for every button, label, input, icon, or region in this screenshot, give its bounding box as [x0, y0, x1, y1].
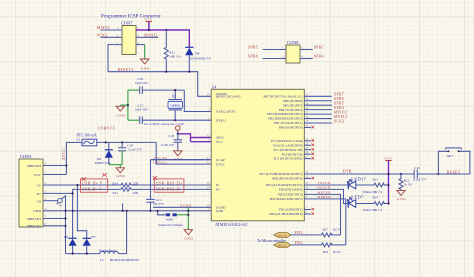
svg-text:R18: R18 [323, 250, 329, 254]
svg-text:1k 5%: 1k 5% [333, 250, 342, 254]
blanket box USB_RES nets [153, 176, 184, 192]
port M8TXD to microcontroller [274, 231, 322, 237]
ground under jumper [184, 230, 193, 241]
U4 XTAL1 XTAL2 UCAP UGND stubs [151, 159, 211, 161]
svg-text:SH: SH [59, 205, 63, 208]
svg-text:SCK2: SCK2 [97, 34, 108, 38]
svg-text:PD0 (OC.0B/AIN0/INT0): PD0 (OC.0B/AIN0/INT0) [269, 212, 302, 216]
wire shield pins tie [43, 210, 67, 227]
svg-text:CON3: CON3 [20, 154, 32, 159]
capacitor C10 [413, 166, 438, 182]
svg-text:D4: D4 [195, 52, 199, 56]
wire CON3 D+ / USB_D+ line [43, 189, 121, 193]
svg-text:SPB7: SPB7 [314, 46, 324, 50]
svg-text:L2: L2 [100, 258, 104, 262]
svg-text:PB3 (PDO/MISO/PCINT3): PB3 (PDO/MISO/PCINT3) [267, 112, 302, 116]
svg-text:16pF 50V: 16pF 50V [135, 81, 149, 85]
wire CON8 pin3 [248, 55, 286, 59]
svg-text:R13: R13 [373, 178, 379, 182]
ground at crystal caps [116, 106, 125, 118]
wire GND net from CON3 to U4 [43, 210, 211, 212]
port M8RXD to microcontroller [274, 241, 322, 247]
resistor R18 [322, 243, 346, 254]
wire USBVCC to UVCC [156, 142, 211, 164]
svg-text:UGND: UGND [180, 204, 192, 208]
svg-text:GND: GND [33, 209, 41, 213]
svg-text:U5V: U5V [145, 18, 153, 22]
svg-text:1k 5%: 1k 5% [404, 183, 413, 187]
reset button JuP1 loop [438, 148, 470, 174]
svg-text:PD5 (XCK/AIN4/PCINT12): PD5 (XCK/AIN4/PCINT12) [266, 183, 303, 187]
svg-text:GND: GND [397, 197, 406, 201]
svg-text:UBVCC: UBVCC [153, 161, 168, 165]
ferrite bead L2 [99, 210, 139, 262]
resistor R14 LED [356, 196, 389, 212]
power port +5V above CON7 [145, 18, 153, 30]
svg-text:R17: R17 [323, 227, 329, 231]
solder pad jumper SolP2 [157, 210, 184, 227]
svg-text:GND: GND [216, 209, 224, 213]
svg-text:TXLED: TXLED [318, 181, 331, 185]
svg-text:USB_RES_D+: USB_RES_D+ [156, 182, 183, 186]
svg-text:D-: D- [216, 183, 219, 187]
fuse F1 PTC 500mA [66, 134, 156, 146]
svg-text:SPB4: SPB4 [334, 106, 344, 110]
svg-text:RXLED: RXLED [318, 186, 331, 190]
svg-text:SMDN 5CA: SMDN 5CA [95, 161, 112, 165]
U4 PD stubs [304, 171, 314, 215]
svg-text:PD6 (RTS/AIN5/INT6): PD6 (RTS/AIN5/INT6) [272, 177, 302, 181]
junction [188, 71, 190, 73]
wire green jumper to ground [177, 207, 189, 229]
svg-text:VCC: VCC [34, 173, 42, 177]
svg-text:PB6 (PCINT6): PB6 (PCINT6) [283, 99, 302, 103]
capacitor C17 [128, 104, 211, 124]
svg-text:XTAL2 (PC0): XTAL2 (PC0) [216, 110, 235, 114]
svg-text:GND: GND [184, 236, 193, 240]
connector CON3 USB [19, 154, 47, 228]
svg-text:SHIELD1: SHIELD1 [27, 217, 41, 221]
junction [165, 29, 167, 31]
svg-text:USB_RES_D-: USB_RES_D- [156, 188, 182, 192]
svg-text:F1: F1 [77, 138, 81, 142]
svg-text:1uF 27V: 1uF 27V [153, 202, 165, 206]
svg-text:UVCC: UVCC [216, 162, 226, 166]
U4 left pin names [216, 95, 240, 214]
svg-text:PB5 (PCINT5): PB5 (PCINT5) [283, 103, 302, 107]
svg-text:D+: D+ [216, 188, 220, 192]
svg-text:PD2: PD2 [295, 241, 303, 245]
junction C21/C19 gnd stubs [122, 204, 152, 212]
svg-text:PD3: PD3 [295, 231, 303, 235]
svg-text:10K 1%: 10K 1% [169, 55, 180, 59]
U4 PC stubs NC [304, 138, 314, 160]
LED LED17 [347, 176, 366, 189]
wire ID to shield tie [43, 196, 66, 254]
svg-text:R14: R14 [373, 196, 379, 200]
wire RXLED from PD4 [304, 186, 348, 204]
svg-text:SHIELD4: SHIELD4 [27, 164, 41, 168]
svg-text:PC5 (PCINT9/OC.1B): PC5 (PCINT9/OC.1B) [273, 148, 302, 152]
svg-text:PD1 (AIN0/INT1): PD1 (AIN0/INT1) [279, 208, 303, 212]
svg-text:ID: ID [37, 199, 41, 203]
LED LED7 [347, 195, 364, 208]
svg-text:SPB6: SPB6 [248, 55, 258, 59]
U4 left pin numbers [207, 94, 210, 212]
junction [387, 202, 389, 204]
resistor R14 22R on D- [113, 181, 212, 186]
svg-text:M8RXD: M8RXD [318, 195, 332, 199]
svg-text:PD4 (INT5/AIN3): PD4 (INT5/AIN3) [279, 188, 303, 192]
capacitor C16 [128, 77, 184, 94]
svg-text:CON7: CON7 [121, 20, 133, 25]
svg-text:Solder Pad Jumper: Solder Pad Jumper [158, 223, 184, 227]
svg-text:16pF 50V: 16pF 50V [135, 108, 149, 112]
wire UGND [153, 204, 211, 208]
wire M8RXD from PD2 [304, 195, 346, 245]
net labels PB [334, 93, 347, 124]
junction [387, 184, 389, 186]
svg-text:PD3 (TXD1/INT3): PD3 (TXD1/INT3) [278, 193, 303, 197]
svg-text:GND: GND [116, 114, 125, 118]
svg-text:PD7 (CTS/HWB/AIN6/T0/INT7): PD7 (CTS/HWB/AIN6/T0/INT7) [259, 172, 302, 176]
svg-text:USB_D- V: USB_D- V [82, 188, 102, 192]
svg-text:D7: D7 [91, 235, 95, 239]
wire CON8 pin2 [300, 46, 324, 50]
svg-text:MOSI2: MOSI2 [334, 115, 347, 119]
resistor R12 pulldown [399, 173, 412, 190]
resistor R13 [356, 178, 389, 194]
svg-text:PB7 (PCINT7/OC.0A/OC.1C): PB7 (PCINT7/OC.0A/OC.1C) [263, 94, 302, 98]
svg-text:SPB4: SPB4 [314, 55, 324, 59]
wire CON7 pin1 MISO2 [97, 26, 139, 30]
svg-text:PC2 (PCINT11/AIN2): PC2 (PCINT11/AIN2) [274, 157, 303, 161]
crystal X2 16MHz [168, 90, 183, 120]
varistor D7 [76, 184, 96, 254]
ground under D5 [116, 168, 125, 178]
svg-text:Yellow 680 1%: Yellow 680 1% [363, 208, 383, 212]
wire CON7 pin4 MOSI2 [136, 34, 158, 38]
varistor D6 [64, 192, 77, 253]
svg-text:22R: 22R [133, 191, 139, 195]
svg-text:SPB5: SPB5 [334, 102, 344, 106]
svg-text:RESET (PC1/dW): RESET (PC1/dW) [216, 95, 240, 99]
svg-text:BLM21PG300SN1D: BLM21PG300SN1D [110, 258, 139, 262]
svg-text:R15: R15 [113, 191, 119, 195]
svg-text:M8TXD: M8TXD [277, 233, 287, 237]
svg-text:UCAP: UCAP [216, 158, 225, 162]
wire TXLED from PD5 [304, 181, 348, 185]
svg-text:SolP2: SolP2 [166, 217, 174, 221]
svg-text:16MHz: 16MHz [170, 104, 181, 108]
svg-text:MOSI2: MOSI2 [144, 34, 158, 38]
wire CON8 pin4 [300, 55, 324, 59]
svg-text:SCK2: SCK2 [334, 119, 345, 123]
diode D4 [185, 47, 211, 71]
connector CON7 [121, 20, 136, 54]
svg-text:PB1 (SCLK/PCINT1): PB1 (SCLK/PCINT1) [274, 121, 302, 125]
svg-text:PC4 (PCINT10): PC4 (PCINT10) [282, 152, 303, 156]
svg-text:USBVCC: USBVCC [98, 127, 116, 131]
svg-text:ATMEGA16U2-AU: ATMEGA16U2-AU [215, 222, 248, 227]
wire green ground tie D5/C19 [109, 151, 122, 168]
U4 right pin stubs PB [304, 96, 332, 128]
wire +5V rail CON7 pin2 [136, 30, 189, 47]
junction [174, 89, 176, 91]
capacitor C19 [118, 142, 143, 151]
resistor R17 [322, 227, 342, 236]
svg-text:DTR: DTR [343, 170, 352, 174]
ground under C18 [174, 151, 183, 161]
net XVCC vertical [62, 142, 66, 174]
junction [177, 133, 179, 135]
junction [105, 141, 107, 143]
wire CON3 SHIELD4 [43, 165, 66, 167]
svg-text:0.1uF 27V: 0.1uF 27V [129, 147, 143, 151]
svg-text:MISO2: MISO2 [97, 26, 111, 30]
svg-text:JuP1: JuP1 [446, 154, 453, 158]
wire M8TXD from PD3 [304, 191, 340, 235]
junction [65, 164, 67, 166]
svg-text:D+: D+ [36, 192, 41, 196]
svg-text:C18: C18 [169, 134, 175, 138]
svg-text:MISO2: MISO2 [334, 110, 347, 114]
svg-text:SPB7: SPB7 [334, 93, 344, 97]
svg-text:SHIELD2: SHIELD2 [27, 224, 41, 228]
svg-text:GND: GND [116, 174, 125, 178]
wire CON7 pin6 to GND [136, 45, 145, 59]
junction [148, 29, 150, 31]
svg-text:D6: D6 [64, 235, 68, 239]
capacitor C21 [146, 198, 164, 211]
svg-text:LED7: LED7 [351, 195, 364, 200]
junction [174, 119, 176, 121]
wire AVCC/VCC purple feed [178, 134, 211, 142]
svg-text:CD1414FB3-7-F: CD1414FB3-7-F [189, 57, 211, 61]
svg-text:0.1uF 27V: 0.1uF 27V [413, 177, 427, 181]
ground under R12 [397, 190, 406, 201]
svg-text:VCC: VCC [216, 140, 224, 144]
svg-text:PB0 (SS/PCINT0): PB0 (SS/PCINT0) [279, 126, 303, 130]
wire CON7 pin3 SCK2 [97, 34, 139, 38]
junction [387, 173, 389, 175]
svg-text:PD2 (RXD1/AIN1/INT2): PD2 (RXD1/AIN1/INT2) [270, 197, 303, 201]
wire ground tie of C16/C17 [120, 90, 129, 120]
wire CON3 VCC [43, 174, 66, 176]
wire shield bottom rail [66, 253, 101, 255]
diode D5 zener [95, 142, 113, 165]
wire CON8 pin1 [248, 46, 286, 50]
svg-text:To Microcontroller: To Microcontroller [257, 239, 287, 243]
svg-text:SPB5: SPB5 [248, 46, 258, 50]
svg-text:LED17: LED17 [351, 176, 366, 181]
resistor R15 22R on D+ [113, 188, 212, 195]
svg-text:1k 5%: 1k 5% [333, 227, 342, 231]
svg-text:PC6 (OC.1A/PCINT8): PC6 (OC.1A/PCINT8) [273, 143, 302, 147]
capacitor C18 [161, 134, 182, 151]
wire DTR from PD7 [304, 170, 414, 174]
svg-text:USB_D+ V: USB_D+ V [82, 182, 103, 186]
wire XTAL2 [184, 90, 211, 111]
connector CON8 [282, 40, 304, 63]
svg-text:RESET2: RESET2 [118, 68, 134, 72]
svg-text:GND: GND [141, 67, 150, 71]
svg-text:PB4 (T1/PCINT4): PB4 (T1/PCINT4) [279, 108, 303, 112]
wire VUCAP [151, 160, 212, 200]
svg-text:M8RXD: M8RXD [277, 243, 287, 247]
power port +5V above LEDs [385, 157, 393, 204]
junction [165, 71, 167, 73]
wire CON7 pin5 to RESET2 [108, 41, 139, 72]
svg-text:CON8: CON8 [287, 40, 299, 45]
svg-text:M8TXD: M8TXD [318, 191, 332, 195]
svg-text:C10: C10 [415, 166, 421, 170]
overline on RESET [216, 93, 227, 95]
svg-text:PB2 (PDI/MOSI/PCINT2): PB2 (PDI/MOSI/PCINT2) [268, 117, 302, 121]
wire RESET2 net to U4 pin 24 [108, 68, 211, 96]
svg-text:SPB6: SPB6 [334, 97, 344, 101]
U4 right pin numbers PB [306, 94, 309, 128]
wire CON3 D- / USB_D- line [43, 184, 121, 186]
svg-text:XTAL1: XTAL1 [216, 118, 227, 122]
ground under CON7 [141, 59, 150, 71]
svg-text:RESET: RESET [447, 170, 461, 174]
svg-text:PC7 (INT4/ICP1/CLK0): PC7 (INT4/ICP1/CLK0) [271, 139, 303, 143]
U4 right pin names [259, 94, 302, 216]
svg-text:R14: R14 [113, 181, 119, 185]
junction [121, 141, 123, 143]
IC U4 ATMEGA16U2 body [211, 86, 304, 228]
resistor R11 [164, 30, 180, 72]
power port above C18 [176, 126, 181, 134]
svg-text:XVCC: XVCC [62, 148, 66, 160]
junction [437, 173, 439, 175]
blanket box USB_D nets [80, 173, 107, 192]
svg-text:0.1uF 27V: 0.1uF 27V [161, 143, 175, 147]
svg-text:Yellow 680 1%: Yellow 680 1% [363, 190, 383, 194]
